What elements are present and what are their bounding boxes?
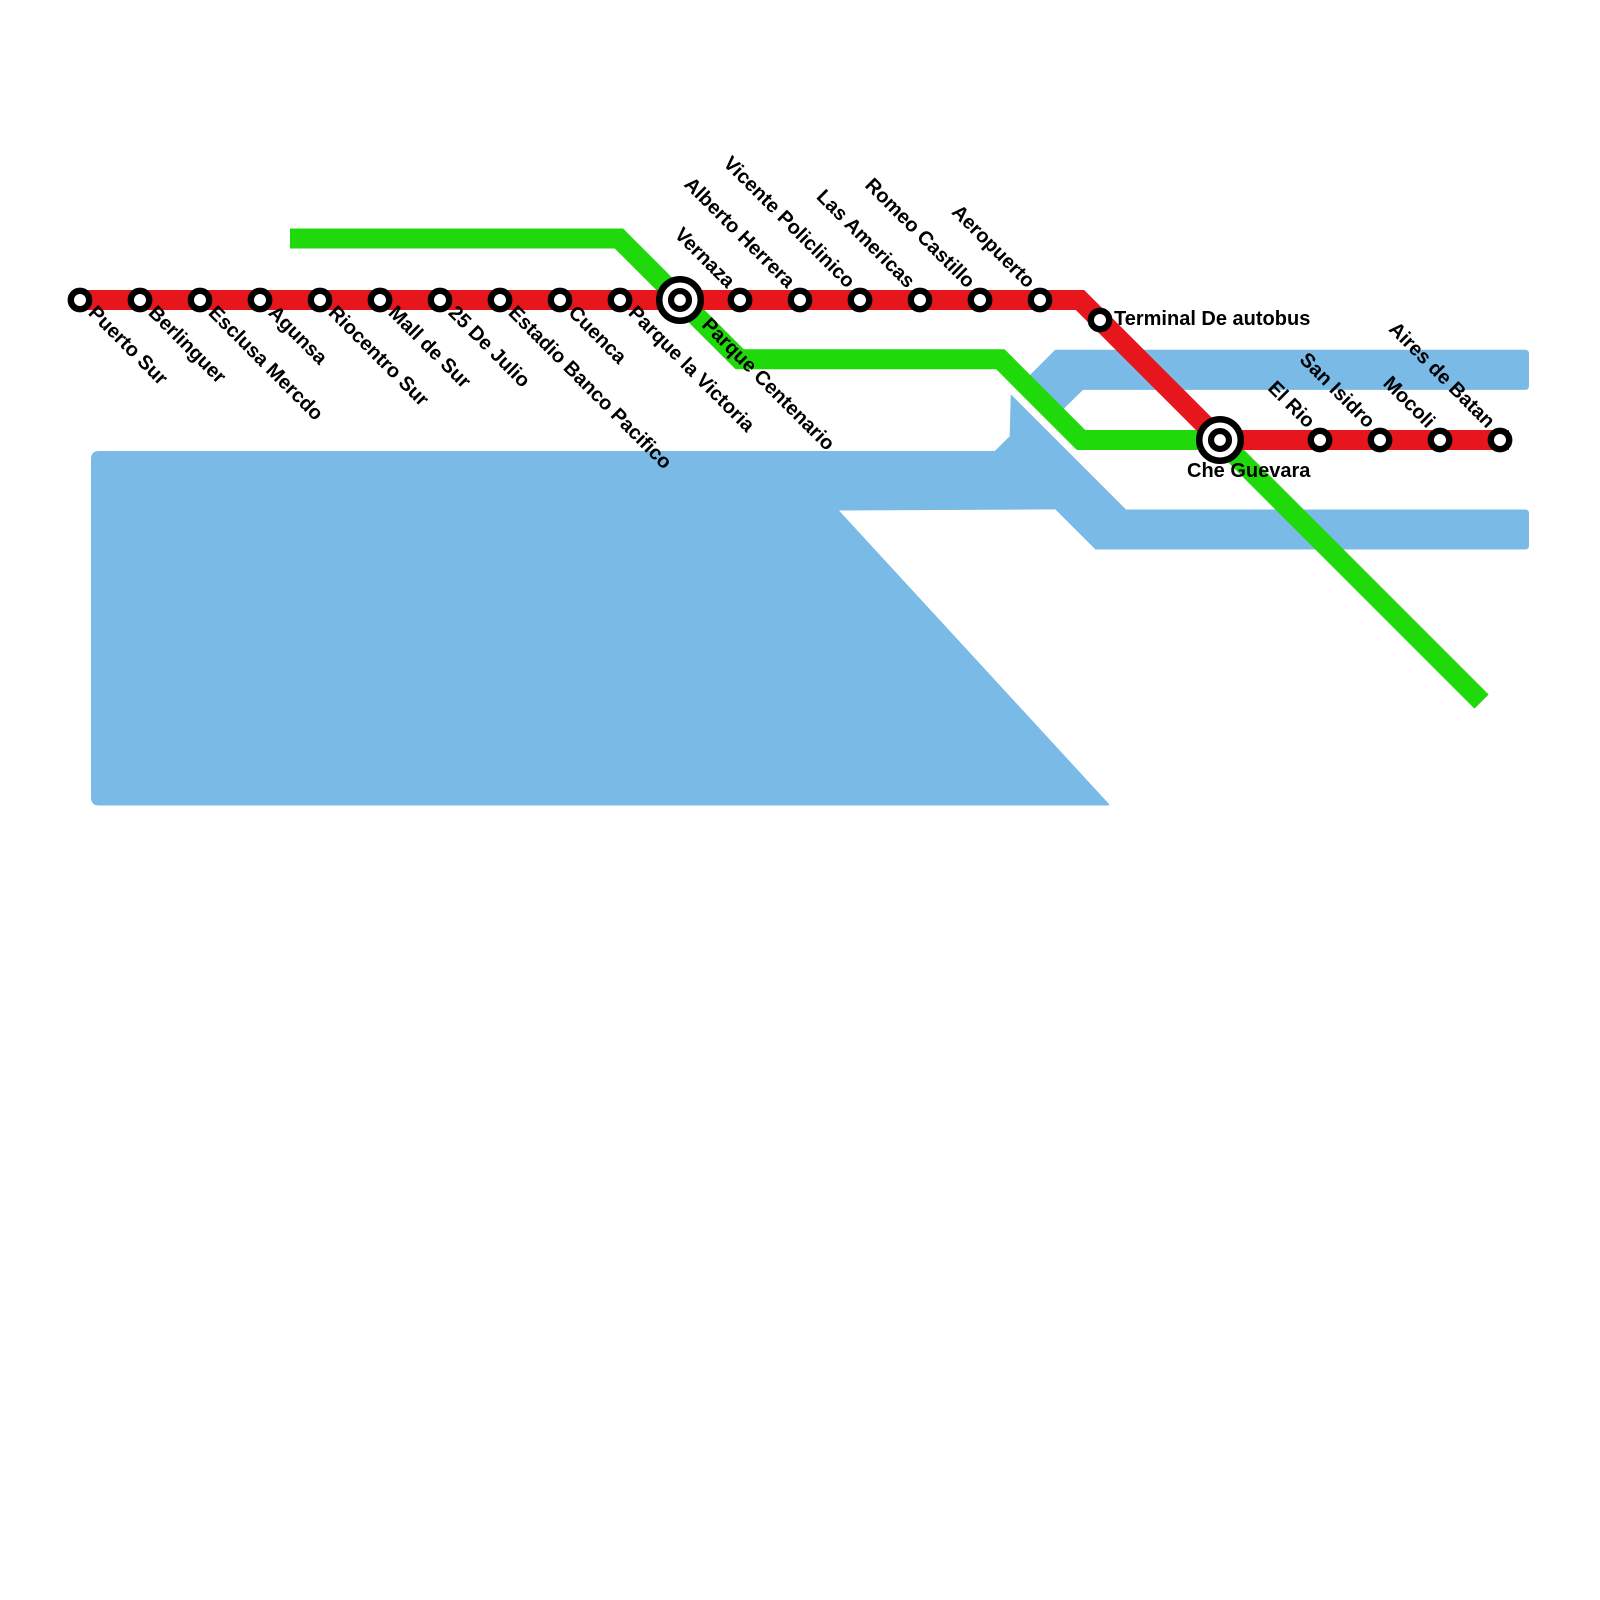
svg-text:Terminal De autobus: Terminal De autobus bbox=[1114, 308, 1310, 330]
water: north river R1 with junction blob bbox=[1011, 350, 1529, 409]
svg-text:Alberto Herrera: Alberto Herrera bbox=[680, 173, 800, 293]
horizontal labels bbox=[1114, 308, 1311, 482]
svg-text:Romeo Castillo: Romeo Castillo bbox=[860, 174, 978, 292]
small stations on red left segment bbox=[71, 291, 1509, 449]
lower labels (start anchored) bbox=[84, 302, 839, 474]
water: estuary, stalk, south river R2 bbox=[91, 394, 1529, 805]
red line bbox=[90, 300, 1499, 440]
svg-text:Che Guevara: Che Guevara bbox=[1187, 460, 1311, 482]
interchange Parque Centenario bbox=[659, 279, 701, 321]
green line bbox=[300, 239, 1475, 695]
upper labels (end anchored) bbox=[670, 152, 1499, 432]
interchange Che Guevara bbox=[1199, 419, 1241, 461]
